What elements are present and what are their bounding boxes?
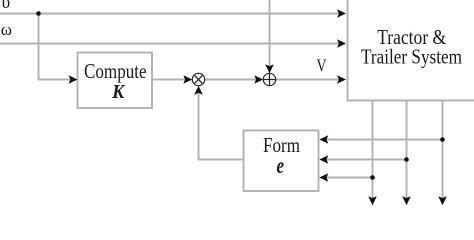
svg-text:V: V [317,56,327,76]
svg-text:e: e [276,153,284,178]
svg-text:ω: ω [1,20,12,39]
svg-text:υ: υ [2,0,11,12]
svg-text:Compute: Compute [84,59,147,83]
svg-text:K: K [111,81,125,103]
svg-text:Trailer System: Trailer System [361,45,462,69]
